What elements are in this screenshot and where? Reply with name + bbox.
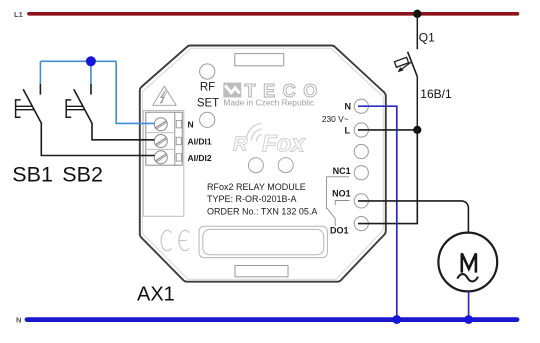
junction dot (SB bus) (86, 56, 96, 66)
bus N (neutral, blue) (27, 317, 517, 322)
svg-text:L1: L1 (14, 10, 23, 19)
svg-text:AX1: AX1 (137, 283, 175, 305)
screw terminal N (pin 1) (154, 118, 167, 131)
case hole right (278, 158, 293, 173)
svg-text:Made in Czech Republic: Made in Czech Republic (223, 98, 314, 108)
svg-text:SB1: SB1 (12, 163, 53, 187)
wire: breaker to L junction (416, 77, 418, 130)
terminal block (3-way screw) (146, 112, 183, 165)
relay contact schematic print (common DO1 arm) (327, 208, 335, 226)
svg-text:ORDER No.: TXN 132 05.A: ORDER No.: TXN 132 05.A (207, 206, 317, 216)
label slot outer (199, 226, 327, 257)
wire: L junction down to DO1 (358, 130, 417, 224)
svg-text:L: L (345, 125, 351, 135)
junction dot on N bus (motor) (464, 315, 473, 324)
svg-text:Fox: Fox (262, 130, 306, 157)
svg-text:AI/DI2: AI/DI2 (188, 153, 212, 163)
svg-text:RF: RF (200, 82, 215, 94)
wire: drop to SB2 (90, 61, 92, 84)
relay module AX1 body (octagon outline) (140, 45, 386, 281)
label slot inner (203, 229, 324, 254)
svg-text:230 V~: 230 V~ (322, 114, 349, 124)
terminal hole spare (354, 144, 368, 158)
wire: NO1 to motor (358, 201, 468, 233)
junction dot on N bus (module) (392, 315, 401, 324)
svg-text:NO1: NO1 (332, 189, 351, 199)
svg-text:DO1: DO1 (330, 225, 349, 235)
svg-text:AI/DI1: AI/DI1 (188, 136, 212, 146)
wire: module N to neutral bus (dark blue) (358, 106, 397, 319)
terminal hole NC1 (354, 166, 368, 180)
wire: SB2 to AI/DI1 (92, 124, 155, 140)
terminal hole L (354, 123, 368, 137)
svg-text:R: R (233, 134, 248, 156)
wire: SB1 to AI/DI2 (41, 124, 154, 156)
svg-text:SB2: SB2 (62, 163, 103, 187)
screw terminal AI/DI1 (pin 2) (154, 135, 167, 148)
wire: L terminal (358, 129, 417, 131)
junction dot at L (413, 126, 421, 134)
antenna window rect (top of case) (235, 54, 284, 66)
warning triangle (hazard symbol on case) (153, 86, 176, 105)
screw terminal AI/DI2 (pin 3) (154, 151, 167, 164)
case hole left (248, 158, 263, 173)
circuit breaker Q1 (394, 52, 417, 77)
wire: SB bus horizontal (light blue) (40, 60, 116, 62)
svg-text:N: N (345, 101, 352, 111)
terminal hole NO1 (354, 194, 368, 208)
RF indicator hole (200, 64, 215, 79)
junction dot on L1 bus (413, 10, 421, 18)
push button SB2 (66, 84, 92, 124)
CE mark (161, 230, 189, 250)
svg-text:TYPE: R-OR-0201B-A: TYPE: R-OR-0201B-A (207, 194, 297, 204)
push button SB1 (16, 84, 42, 124)
wire: motor to neutral bus (blue) (468, 291, 470, 319)
svg-text:N: N (16, 315, 21, 324)
svg-text:SET: SET (197, 98, 219, 110)
svg-text:RFox2 RELAY MODULE: RFox2 RELAY MODULE (207, 182, 306, 192)
svg-text:Q1: Q1 (419, 31, 435, 45)
SET button hole (200, 112, 215, 127)
terminal hole N (354, 99, 368, 113)
motor M1 (438, 233, 497, 292)
bottom connector rect (235, 266, 288, 277)
wire: to module N input (116, 61, 154, 123)
bus L1 (phase, dark red) (29, 12, 518, 16)
terminal recess panel (143, 111, 184, 217)
wire: L1 bus to breaker (416, 14, 418, 50)
relay contact schematic print (NO1) (335, 201, 349, 206)
svg-text:NC1: NC1 (333, 166, 351, 176)
terminal hole DO1 (354, 217, 368, 231)
svg-text:N: N (188, 120, 194, 130)
RFox logo (233, 124, 306, 158)
TECO logo mark (223, 83, 241, 98)
wire: drop to SB1 (39, 61, 41, 84)
svg-text:16B/1: 16B/1 (420, 87, 452, 101)
relay contact schematic print (NC1) (327, 177, 349, 209)
